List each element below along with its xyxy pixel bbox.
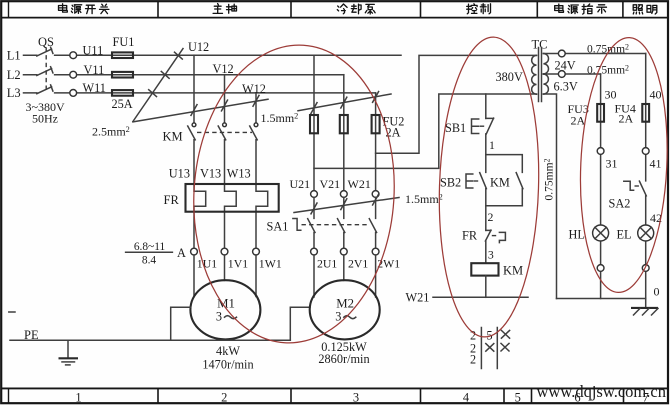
wire 0 rail xyxy=(557,298,646,300)
button SB2 actuator xyxy=(466,174,479,188)
switch QS linkage xyxy=(45,48,47,94)
header cell 3 text 冷却泵 xyxy=(337,4,375,14)
svg-text:L3: L3 xyxy=(7,86,21,100)
wire parallel rejoin xyxy=(486,206,523,231)
terminal circle U21 xyxy=(311,191,318,198)
svg-text:SB2: SB2 xyxy=(440,175,461,189)
svg-text:24V: 24V xyxy=(555,59,576,73)
svg-text:M2: M2 xyxy=(336,296,354,310)
svg-text:FR: FR xyxy=(462,229,478,243)
svg-text:U13: U13 xyxy=(169,167,190,181)
contactor KM linkage xyxy=(197,131,252,133)
button SB1 actuator xyxy=(472,119,485,134)
switch QS pole 3 xyxy=(37,85,53,94)
fuse FU1 pole 1 xyxy=(112,52,133,58)
svg-text:2: 2 xyxy=(488,210,494,224)
terminal circle L2 xyxy=(70,71,77,78)
svg-text:V12: V12 xyxy=(213,62,234,76)
svg-text:W13: W13 xyxy=(227,167,251,181)
wire V13 with FR heater detour xyxy=(225,140,237,248)
wires terminals to motor M1 xyxy=(194,255,256,297)
switch SA1 handle xyxy=(293,219,301,231)
wire M2 to PE xyxy=(290,307,310,340)
svg-text:0: 0 xyxy=(654,285,660,299)
svg-text:FU1: FU1 xyxy=(113,35,135,49)
wire coil to W21 xyxy=(485,276,487,298)
wire W21 return line xyxy=(433,296,528,298)
wire V12 drop xyxy=(224,75,226,123)
terminal circle 2U1 xyxy=(311,248,318,255)
contactor KM coil xyxy=(471,263,498,275)
svg-text:2: 2 xyxy=(221,390,227,404)
terminal circle 41 xyxy=(642,148,649,155)
wire PE bus xyxy=(10,339,290,341)
svg-text:EL: EL xyxy=(617,228,632,242)
wire 24V tap to lighting branch xyxy=(543,53,645,55)
wire L1 phase xyxy=(24,54,402,56)
svg-text:W12: W12 xyxy=(242,82,266,96)
wire W2 drop from L3 xyxy=(375,93,377,191)
header cell 4 text 控制 xyxy=(467,4,491,14)
svg-text:0.75mm2: 0.75mm2 xyxy=(542,158,555,200)
svg-text:2U1: 2U1 xyxy=(317,257,337,271)
svg-text:U21: U21 xyxy=(290,177,311,191)
svg-text:2V1: 2V1 xyxy=(348,257,368,271)
svg-text:40: 40 xyxy=(650,88,662,102)
svg-text:SA1: SA1 xyxy=(267,220,289,234)
svg-text:V11: V11 xyxy=(84,63,105,77)
svg-text:2: 2 xyxy=(470,353,476,367)
wires terminals to motor M2 xyxy=(314,255,376,297)
wire W2 phase to TC primary top xyxy=(376,55,537,153)
svg-text:3: 3 xyxy=(488,247,494,261)
terminal circle 24V xyxy=(558,50,565,57)
svg-text:8.4: 8.4 xyxy=(142,255,157,267)
header cell 5 text 电源指示 xyxy=(555,4,607,14)
wire V2 drop from L2 xyxy=(343,75,345,191)
switch SA2 handle xyxy=(624,181,639,190)
svg-text:U12: U12 xyxy=(188,40,209,54)
bottom row numbers xyxy=(75,390,648,404)
header cell 1 text 电源开关 xyxy=(59,4,109,14)
svg-text:2.5mm2: 2.5mm2 xyxy=(92,124,130,138)
FR setting 6.8~11 over 8.4 xyxy=(126,241,173,267)
svg-text:KM: KM xyxy=(163,129,183,143)
wire W13 with FR heater detour xyxy=(256,140,268,248)
svg-text:HL: HL xyxy=(569,228,585,242)
wire 6.3V tap to indicator branch xyxy=(543,73,600,75)
header cell 6 text 照明 xyxy=(633,5,657,14)
wire W12 drop xyxy=(255,93,257,123)
svg-text:30: 30 xyxy=(605,88,617,102)
svg-text:V13: V13 xyxy=(200,167,221,181)
svg-text:PE: PE xyxy=(24,328,39,342)
wire U2 phase to TC primary bottom xyxy=(314,94,537,168)
svg-text:6.8~11: 6.8~11 xyxy=(134,241,166,253)
svg-text:W21: W21 xyxy=(406,290,430,304)
thermal relay FR box xyxy=(186,184,279,212)
svg-text:3: 3 xyxy=(335,309,341,323)
cable mark spindle 1.5mm2 xyxy=(133,95,268,122)
fuse FU1 pole 3 xyxy=(112,90,133,96)
svg-text:1U1: 1U1 xyxy=(197,257,217,271)
terminal circle 6.3V xyxy=(558,71,565,78)
contact table x marks xyxy=(486,330,510,351)
terminal circle 1W1 xyxy=(253,248,260,255)
svg-text:1W1: 1W1 xyxy=(259,257,282,271)
svg-text:FR: FR xyxy=(164,193,180,207)
border tick left xyxy=(9,311,15,313)
motor M2 circle xyxy=(310,280,380,339)
annotation ellipse control xyxy=(435,36,543,339)
cable mark incoming 2.5mm2 xyxy=(133,49,183,122)
wire control branch SB1 feed xyxy=(485,94,487,118)
button SB2 start contact xyxy=(480,173,487,206)
fuse FU1 pole 2 xyxy=(112,72,133,78)
contactor KM main contact 1 xyxy=(188,123,196,140)
svg-text:U11: U11 xyxy=(83,43,104,57)
switch SA2 blade xyxy=(639,181,646,196)
thermal relay FR nc contact xyxy=(485,230,491,263)
annotation ellipse lighting xyxy=(575,36,670,295)
switch SA1 pole 1 xyxy=(308,197,315,248)
wire parallel split xyxy=(486,155,523,173)
svg-text:V21: V21 xyxy=(320,177,341,191)
contactor KM main contact 3 xyxy=(250,123,258,140)
svg-text:3: 3 xyxy=(216,309,222,323)
wire U12 drop xyxy=(193,55,195,123)
terminal circle 31 xyxy=(597,148,604,155)
svg-text:50Hz: 50Hz xyxy=(32,111,58,125)
wire EL branch xyxy=(645,54,647,299)
svg-text:1.5mm2: 1.5mm2 xyxy=(405,192,443,206)
switch QS pole 2 xyxy=(37,67,53,76)
motor M1 phase 3~ xyxy=(216,309,237,323)
annotation ellipse spindle xyxy=(185,39,403,349)
fuse FU2 pole 3 xyxy=(372,115,380,133)
transformer TC secondary winding 24V xyxy=(543,54,548,74)
button SB1 stop contact xyxy=(486,118,494,155)
svg-text:41: 41 xyxy=(650,157,662,171)
svg-text:www.dqjsw.com.cn: www.dqjsw.com.cn xyxy=(537,382,667,401)
fuse FU2 pole 1 xyxy=(310,115,318,133)
svg-text:6.3V: 6.3V xyxy=(554,79,578,93)
terminal circle V21 xyxy=(340,191,347,198)
svg-text:2A: 2A xyxy=(571,113,586,127)
svg-text:W21: W21 xyxy=(348,177,371,191)
terminal circle 1V1 xyxy=(221,248,228,255)
switch QS pole 1 xyxy=(37,47,53,56)
svg-text:L1: L1 xyxy=(7,48,21,62)
ground symbol PE xyxy=(59,340,79,365)
cable mark pump feeders xyxy=(298,92,391,114)
svg-text:SB1: SB1 xyxy=(445,121,466,135)
terminal circle EL bottom xyxy=(642,265,649,272)
terminal circle HL bottom xyxy=(597,265,604,272)
cable mark pump 1.5mm2 xyxy=(294,194,399,214)
svg-text:5: 5 xyxy=(515,390,521,404)
wire secondary common to 0 rail xyxy=(543,94,556,299)
wire U2 drop from L1 xyxy=(313,55,315,190)
transformer TC primary winding xyxy=(532,55,537,94)
terminal circle 1U1 xyxy=(191,248,198,255)
fuse FU4 xyxy=(642,104,649,122)
terminal circle L3 xyxy=(70,90,77,97)
svg-text:L2: L2 xyxy=(7,68,21,82)
svg-text:SA2: SA2 xyxy=(609,197,631,211)
fuse FU3 xyxy=(597,104,604,122)
ground symbol control xyxy=(631,299,658,316)
lamp HL xyxy=(593,225,609,241)
terminal circle 2W1 xyxy=(372,248,379,255)
svg-text:1V1: 1V1 xyxy=(228,257,248,271)
svg-text:4: 4 xyxy=(463,390,470,404)
transformer TC secondary winding 6.3V xyxy=(543,74,548,94)
svg-text:31: 31 xyxy=(606,157,618,171)
svg-text:KM: KM xyxy=(490,175,510,189)
lamp EL xyxy=(638,225,654,241)
thermal relay FR release hook xyxy=(492,232,506,242)
switch SA1 linkage xyxy=(302,224,370,226)
svg-text:1.5mm2: 1.5mm2 xyxy=(261,111,299,125)
switch SA1 pole 3 xyxy=(369,197,376,248)
header cell 2 text 主轴 xyxy=(213,4,236,14)
transformer TC core xyxy=(539,48,542,102)
svg-text:2860r/min: 2860r/min xyxy=(318,352,369,366)
svg-text:2A: 2A xyxy=(619,112,634,126)
svg-text:1: 1 xyxy=(75,390,81,404)
svg-text:3: 3 xyxy=(353,390,359,404)
svg-text:25A: 25A xyxy=(112,97,133,111)
svg-text:KM: KM xyxy=(503,263,523,277)
svg-text:A: A xyxy=(177,246,186,260)
contact table numbers column 1 xyxy=(470,329,476,367)
contact usage table xyxy=(481,328,497,369)
svg-text:1: 1 xyxy=(489,138,495,152)
svg-text:0.75mm2: 0.75mm2 xyxy=(587,64,629,77)
switch SA1 pole 2 xyxy=(338,197,345,248)
svg-text:QS: QS xyxy=(38,35,54,49)
wire M1 to PE xyxy=(171,307,191,340)
terminal circle W21 xyxy=(372,191,379,198)
motor M1 circle xyxy=(190,280,260,339)
terminal circle 2V1 xyxy=(340,248,347,255)
svg-text:W11: W11 xyxy=(83,81,106,95)
contactor KM main contact 2 xyxy=(218,123,226,140)
fuse FU2 pole 2 xyxy=(340,115,348,133)
svg-text:TC: TC xyxy=(532,38,548,52)
wire L3 phase xyxy=(24,92,376,94)
svg-text:1470r/min: 1470r/min xyxy=(202,357,253,371)
wire HL branch xyxy=(600,74,602,299)
motor M2 phase 3~ xyxy=(335,309,356,323)
wire L2 phase xyxy=(24,74,344,76)
contactor KM auxiliary contact xyxy=(516,173,523,206)
svg-text:380V: 380V xyxy=(496,70,523,84)
wire U13 with FR heater detour xyxy=(194,140,206,248)
terminal circle L1 xyxy=(70,52,77,59)
svg-text:4kW: 4kW xyxy=(216,344,240,358)
